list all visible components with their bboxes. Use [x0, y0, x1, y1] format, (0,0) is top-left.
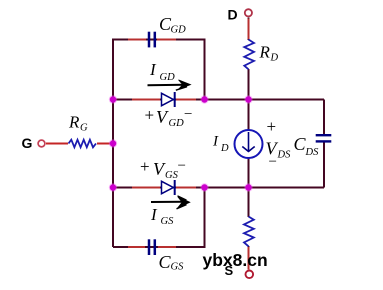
svg-text:+: + [145, 105, 155, 124]
svg-text:D: D [220, 143, 229, 154]
svg-text:−: − [178, 158, 186, 174]
svg-text:G: G [22, 135, 33, 151]
svg-text:GS: GS [171, 262, 185, 273]
svg-text:+: + [267, 117, 277, 136]
svg-text:I: I [150, 205, 158, 224]
svg-text:ybx8.cn: ybx8.cn [203, 250, 268, 270]
svg-text:GD: GD [160, 72, 176, 83]
svg-text:G: G [80, 123, 88, 134]
svg-text:I: I [212, 134, 219, 150]
svg-text:GD: GD [169, 118, 185, 129]
svg-text:V: V [156, 107, 169, 127]
svg-text:−: − [269, 154, 277, 170]
svg-text:GS: GS [161, 216, 175, 227]
svg-text:I: I [149, 60, 157, 79]
svg-text:DS: DS [305, 147, 320, 158]
svg-text:D: D [270, 53, 279, 64]
svg-text:GD: GD [171, 25, 187, 36]
svg-text:DS: DS [277, 150, 292, 161]
svg-text:R: R [259, 43, 271, 62]
svg-text:+: + [140, 157, 150, 176]
svg-text:−: − [184, 107, 192, 123]
svg-text:R: R [68, 113, 80, 132]
svg-text:D: D [228, 7, 238, 23]
